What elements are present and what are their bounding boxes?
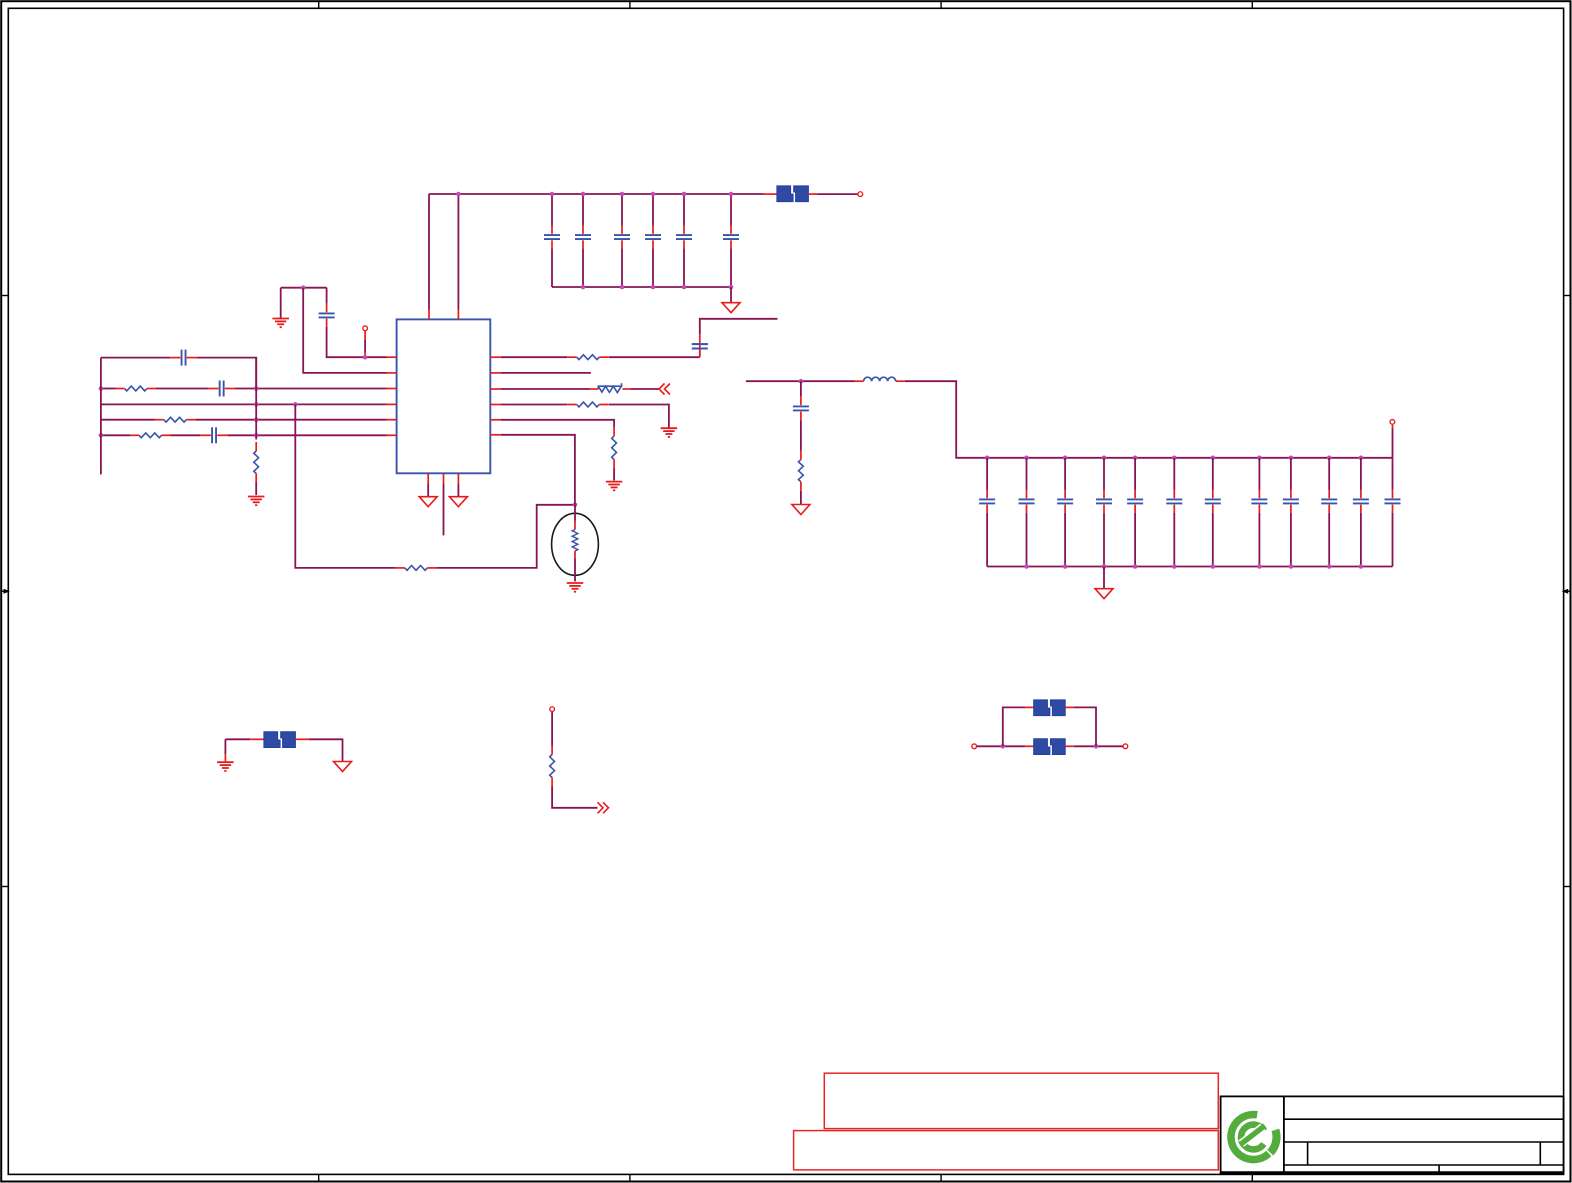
wire R2 to left bus	[101, 419, 155, 421]
wire U1 bottom pin A	[427, 473, 429, 496]
wire port to R10	[551, 712, 553, 746]
wire U1 pin VDD1 riser	[428, 194, 430, 310]
ground GND3 (power triangle)	[449, 497, 467, 507]
junction thermistor node	[573, 503, 578, 508]
capacitor C5	[676, 226, 692, 249]
wire R6 to C11	[609, 356, 700, 358]
title block frame	[1221, 1096, 1564, 1173]
junction top rail	[985, 456, 990, 461]
border zone tick top	[1251, 1, 1253, 8]
wire C4 top lead	[652, 194, 654, 226]
junction bottom rail	[1172, 564, 1177, 569]
wire C6 bottom lead	[730, 248, 732, 287]
wire bottom rail to ground	[730, 287, 732, 303]
junction rail / C3	[620, 192, 625, 197]
wire C13 bottom lead	[986, 513, 988, 567]
capacitor C15	[1057, 490, 1073, 513]
capacitor C21	[1283, 490, 1299, 513]
wire C20 bottom lead	[1258, 513, 1260, 567]
wire U1 bottom pin B	[443, 473, 445, 535]
wire port SENSE down	[364, 331, 366, 357]
wire C9 to mid bus	[197, 358, 256, 389]
wire NT1 to port	[808, 193, 857, 195]
junction top rail	[1289, 456, 1294, 461]
wire rail to port VOUT	[1392, 425, 1394, 458]
ground AGND4 (earth)	[606, 482, 623, 491]
border zone tick right	[1564, 295, 1571, 297]
wire C2 bottom lead	[582, 248, 584, 287]
capacitor C14	[1019, 490, 1035, 513]
wire C7 top lead	[326, 288, 328, 304]
junction bottom rail	[1327, 564, 1332, 569]
wire R11 to chevron	[631, 388, 659, 390]
ground GND1 (power triangle)	[722, 303, 740, 313]
capacitor C24	[1385, 490, 1401, 513]
ground AGND3 (earth)	[661, 428, 678, 437]
wire U1 pin5 net	[195, 419, 396, 421]
wire rail stub to net tie NT1	[764, 193, 777, 195]
wire feedback cap branch	[101, 357, 170, 359]
resistor R11 (trim)	[590, 383, 632, 392]
junction pin4 net / thermistor branch	[293, 402, 298, 407]
junction bottom rail	[682, 285, 687, 290]
junction bottom rail	[1133, 564, 1138, 569]
off-page arrow (in)	[659, 384, 670, 395]
resistor R8	[612, 427, 617, 469]
wire C22 top lead	[1328, 458, 1330, 490]
wire C15 top lead	[1064, 458, 1066, 490]
ground GND4 (power triangle)	[792, 505, 810, 515]
wire tie loop left	[1003, 707, 1025, 746]
wire top-left rail	[281, 287, 327, 289]
border centre arrow left	[1, 589, 10, 594]
net tie NT3	[1034, 739, 1066, 755]
wire C10 to R3	[171, 434, 201, 436]
wire C18 bottom lead	[1173, 513, 1175, 567]
junction bottom rail	[651, 285, 656, 290]
capacitor C7	[319, 304, 335, 327]
wire C3 bottom lead	[621, 248, 623, 287]
junction rail / C1	[550, 192, 555, 197]
wire filter input	[746, 380, 855, 382]
inductor L1	[855, 377, 905, 381]
junction left bus / pin3 net	[99, 386, 104, 391]
ground AGND1 (earth)	[272, 319, 289, 328]
wire U1 pin11 stub	[490, 372, 591, 374]
off-page arrow (out)	[598, 802, 609, 813]
wire C4 bottom lead	[652, 248, 654, 287]
junction pin4 net / mid bus	[254, 402, 259, 407]
resistor R9	[799, 451, 804, 491]
capacitor C22	[1321, 490, 1337, 513]
junction top rail	[1133, 456, 1138, 461]
wire cap bank top rail	[987, 457, 1392, 459]
port TIE_B	[1123, 744, 1128, 749]
junction pin6 net / mid bus	[254, 433, 259, 438]
wire U1 pin10 net	[490, 388, 589, 390]
capacitor C16	[1096, 490, 1112, 513]
wire C17 bottom lead	[1134, 513, 1136, 567]
wire C15 bottom lead	[1064, 513, 1066, 567]
wire U1 pin12 net	[490, 356, 567, 358]
resistor R2	[155, 417, 196, 422]
wire R8 to ground	[613, 469, 615, 481]
wire NT2 to GND drop	[295, 739, 342, 761]
ground GND2 (power triangle)	[419, 497, 437, 507]
capacitor C9	[170, 350, 197, 366]
port ID_PIN	[550, 707, 555, 712]
wire C2 top lead	[582, 194, 584, 226]
junction bottom rail	[1211, 564, 1216, 569]
wire C11 to stub end	[700, 319, 778, 335]
wire C16 top lead	[1103, 458, 1105, 490]
ground AGND5 (earth)	[567, 583, 584, 592]
port SENSE	[363, 326, 368, 331]
wire C19 top lead	[1212, 458, 1214, 490]
wire L1 to cap bank	[905, 381, 987, 458]
wire U1 bottom pin C	[457, 473, 459, 496]
junction bottom rail / ground	[1102, 564, 1107, 569]
border zone tick top	[318, 1, 320, 8]
junction bottom rail	[1102, 564, 1107, 569]
net tie NT1 (VCC feed)	[777, 186, 809, 202]
wire C14 top lead	[1026, 458, 1028, 490]
capacitor C3	[614, 226, 630, 249]
net tie NT4	[1034, 700, 1066, 716]
resistor R10	[550, 746, 555, 787]
junction left bus / pin6 net	[99, 433, 104, 438]
wire U1 pin6 net	[227, 434, 396, 436]
border zone tick left	[1, 886, 8, 888]
junction bottom rail	[1257, 564, 1262, 569]
resistor R5	[396, 566, 437, 571]
port VOUT	[1390, 420, 1395, 425]
resistor R4	[254, 442, 259, 483]
wire drop to AGND	[280, 288, 282, 318]
junction tie left	[1001, 744, 1006, 749]
wire C22 bottom lead	[1328, 513, 1330, 567]
wire VCC rail	[429, 193, 764, 195]
border zone tick top	[629, 1, 631, 8]
border zone tick bottom	[940, 1174, 942, 1181]
wire R5 to thermistor node	[436, 505, 575, 568]
resistor R7	[568, 402, 609, 407]
junction rail / C2	[581, 192, 586, 197]
revision box upper	[824, 1073, 1218, 1128]
wire mid bus vertical	[255, 358, 257, 440]
junction top rail	[1211, 456, 1216, 461]
junction pin1 net / SENSE	[363, 355, 368, 360]
junction top rail	[1359, 456, 1364, 461]
capacitor C19	[1205, 490, 1221, 513]
ground GND5 (power triangle)	[1095, 589, 1113, 599]
ground GND6 (power triangle)	[334, 762, 352, 772]
wire U1 pin VDD2 riser	[457, 194, 459, 310]
wire C17 top lead	[1134, 458, 1136, 490]
ground AGND2 (earth)	[248, 497, 265, 506]
wire C23 bottom lead	[1360, 513, 1362, 567]
junction bottom rail	[620, 285, 625, 290]
capacitor C4	[645, 226, 661, 249]
wire TIE_A to junction	[977, 745, 1025, 747]
wire C1 top lead	[551, 194, 553, 226]
wire U1 pin3 net	[235, 388, 397, 390]
junction top rail	[1172, 456, 1177, 461]
junction rail / C6	[729, 192, 734, 197]
wire C5 top lead	[683, 194, 685, 226]
wire C24 bottom lead	[1392, 513, 1394, 567]
wire C1 bottom lead	[551, 248, 553, 287]
wire tie loop right	[1065, 707, 1096, 746]
capacitor C20	[1251, 490, 1267, 513]
wire decoupling bottom rail	[552, 286, 731, 288]
wire C16 bottom lead	[1103, 513, 1105, 567]
capacitor C10	[201, 427, 228, 443]
border zone tick bottom	[629, 1174, 631, 1181]
wire R4 to ground	[255, 483, 257, 496]
capacitor C17	[1127, 490, 1143, 513]
wire U1 pin4 net	[101, 403, 397, 405]
wire C23 top lead	[1360, 458, 1362, 490]
wire AGND to NT2 left	[225, 738, 250, 740]
junction filter input / snubber	[799, 379, 804, 384]
wire U1 pin9 net	[490, 404, 567, 406]
wire C7 to U1 pin1	[327, 327, 387, 357]
wire C20 top lead	[1258, 458, 1260, 490]
capacitor C18	[1166, 490, 1182, 513]
wire R3 to left bus	[101, 434, 130, 436]
junction bottom rail	[581, 285, 586, 290]
net tie NT2 (AGND-DGND)	[264, 732, 296, 748]
border zone tick left	[1, 295, 8, 297]
wire NT3 to junction right	[1065, 745, 1123, 747]
junction tie right	[1094, 744, 1099, 749]
border centre arrow right	[1562, 589, 1571, 594]
wire R9 to ground	[800, 491, 802, 505]
port TIE_A	[972, 744, 977, 749]
wire C14 bottom lead	[1026, 513, 1028, 567]
revision box lower	[794, 1131, 1219, 1170]
wire C24 top lead	[1392, 458, 1394, 490]
ground AGND6 (earth)	[217, 762, 234, 771]
IC U1 body	[397, 319, 491, 473]
wire to U1 pin2	[303, 288, 386, 373]
junction top rail	[1063, 456, 1068, 461]
capacitor C11	[692, 334, 708, 356]
capacitor C1	[544, 226, 560, 249]
junction bottom rail	[1063, 564, 1068, 569]
wire C5 bottom lead	[683, 248, 685, 287]
junction top-left rail	[301, 285, 306, 290]
junction top rail	[1024, 456, 1029, 461]
capacitor C11	[217, 319, 1563, 1173]
junction bottom rail	[729, 285, 734, 290]
capacitor C12	[793, 396, 809, 420]
junction bottom rail	[1359, 564, 1364, 569]
junction top rail	[1327, 456, 1332, 461]
junction rail / C5	[682, 192, 687, 197]
junction pin5 net / mid bus	[254, 417, 259, 422]
company logo	[1231, 1115, 1276, 1159]
junction bottom rail	[1024, 564, 1029, 569]
junction VCC rail / VDD2	[456, 192, 461, 197]
wire thermistor branch	[295, 404, 396, 568]
wire bottom rail to ground	[1103, 567, 1105, 589]
border zone tick bottom	[1251, 1174, 1253, 1181]
junction bottom rail	[1289, 564, 1294, 569]
junction rail / C4	[651, 192, 656, 197]
capacitor C6	[723, 226, 739, 249]
wire left bus vertical	[100, 358, 102, 475]
resistor R1	[116, 386, 157, 391]
wire U1 pin8 net	[490, 420, 614, 427]
wire cap bank bottom rail	[987, 566, 1392, 568]
capacitor C23	[1353, 490, 1369, 513]
resistor R6	[568, 355, 609, 360]
wire R10 to chevron	[552, 787, 597, 808]
wire C21 bottom lead	[1290, 513, 1292, 567]
wire R7 to ground	[609, 405, 669, 428]
wire C3 top lead	[621, 194, 623, 226]
wire R1 to left bus	[101, 388, 116, 390]
wire C18 top lead	[1173, 458, 1175, 490]
junction top rail	[1257, 456, 1262, 461]
wire snubber branch	[800, 381, 802, 396]
wire C6 top lead	[730, 194, 732, 226]
capacitor C13	[979, 490, 995, 513]
junction top rail	[1102, 456, 1107, 461]
border zone tick top	[940, 1, 942, 8]
wire AGND drop	[224, 739, 226, 761]
wire U1 pin7 net	[490, 435, 575, 505]
thermistor RT1	[552, 505, 599, 582]
capacitor C8	[208, 381, 235, 397]
border zone tick right	[1564, 886, 1571, 888]
border zone tick bottom	[318, 1174, 320, 1181]
junction pin3 net / mid bus	[254, 386, 259, 391]
wire C19 bottom lead	[1212, 513, 1214, 567]
capacitor C2	[575, 226, 591, 249]
port VCC_IN	[858, 192, 863, 197]
wire C8 to R1	[156, 388, 208, 390]
resistor R3	[130, 433, 171, 438]
wire C21 top lead	[1290, 458, 1292, 490]
wire C12 to R9	[800, 420, 802, 450]
wire C13 top lead	[986, 458, 988, 490]
